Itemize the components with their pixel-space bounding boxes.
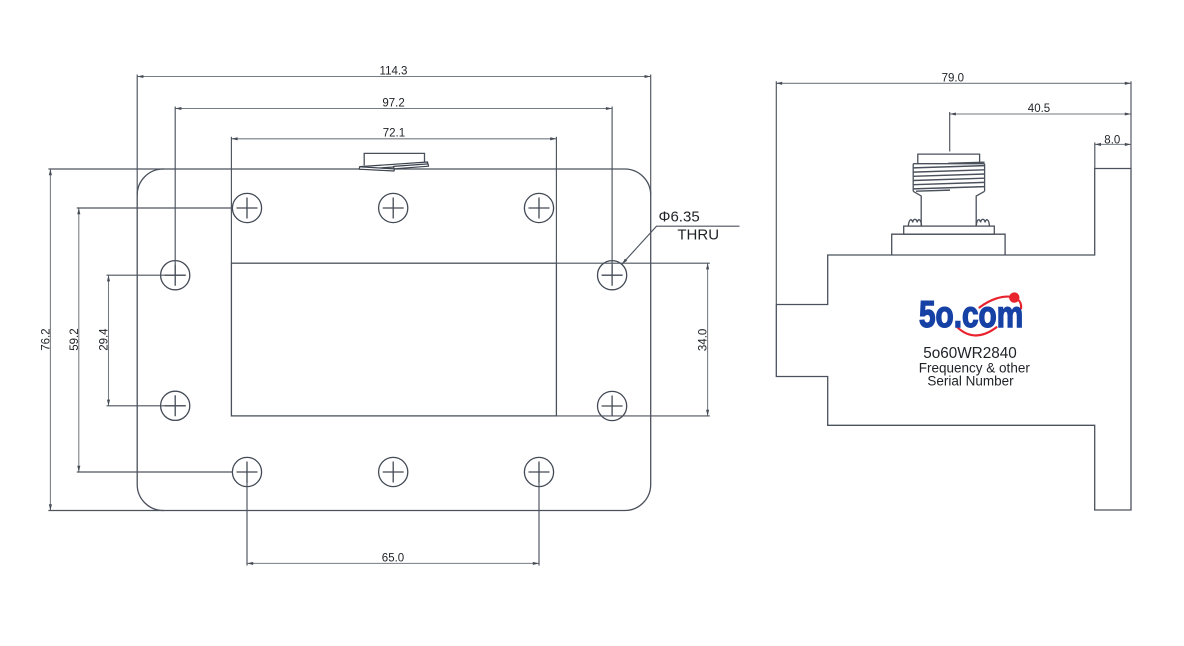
dim72.1 ext right — [555, 137, 557, 263]
svg-text:76.2: 76.2 — [41, 328, 53, 350]
svg-text:THRU: THRU — [677, 227, 719, 244]
arrow 65.0 R — [533, 562, 539, 565]
dim29.4 ext top — [107, 274, 186, 276]
dim72.1 line — [231, 138, 556, 140]
cover clip strip C — [359, 167, 394, 171]
connector cap — [918, 154, 980, 164]
arrow 65.0 L — [247, 562, 253, 565]
arrow 40.5 L — [950, 112, 956, 115]
hole r4c2 — [379, 457, 408, 486]
dim72.1 ext left — [230, 137, 232, 263]
svg-text:114.3: 114.3 — [380, 66, 408, 78]
connector base block — [892, 234, 1005, 255]
holes — [161, 193, 627, 486]
dim59.2 ext top — [77, 207, 233, 209]
dim34.0 line — [707, 263, 709, 416]
cover clip strip A — [360, 162, 428, 169]
dim114.3 ext left — [136, 75, 138, 196]
arrow 114.3 R — [645, 75, 651, 78]
waveguide aperture rectangle — [231, 263, 556, 416]
hole r2c2 — [598, 261, 627, 290]
DIMENSIONS-LEFT — [50, 77, 707, 564]
wave washer right — [976, 219, 989, 226]
washer plate — [904, 226, 995, 234]
arrow leader — [622, 259, 627, 265]
dim65.0 ext right — [538, 481, 540, 566]
hole r1c3 — [524, 193, 553, 222]
cover tab rect — [364, 153, 424, 165]
connector neck — [913, 191, 984, 226]
svg-text:40.5: 40.5 — [1028, 103, 1050, 115]
arrow 79.0 L — [776, 82, 782, 85]
svg-text:Φ6.35: Φ6.35 — [659, 209, 700, 226]
arrow 76.2 T — [49, 169, 52, 175]
hole r4c3 — [524, 457, 553, 486]
DIMENSIONS-RIGHT — [776, 83, 1131, 144]
svg-text:5o.com: 5o.com — [919, 293, 1023, 335]
hole r1c1 — [232, 193, 261, 222]
arrow 29.4 B — [107, 400, 110, 406]
dim8.0 line — [1095, 143, 1131, 145]
dim97.2 ext right — [611, 107, 613, 276]
dim8.0 ext — [1094, 142, 1096, 168]
leader line hole callout — [622, 226, 740, 264]
logo orbit upper arc — [980, 297, 1022, 309]
arrow 72.1 R — [550, 137, 556, 140]
dim40.5 line — [950, 113, 1131, 115]
dim76.2 line — [49, 169, 51, 511]
arrow 76.2 B — [49, 504, 52, 510]
dim79.0 line — [776, 82, 1131, 84]
arrow 8.0 L — [1095, 143, 1101, 146]
svg-text:8.0: 8.0 — [1104, 135, 1120, 147]
dim65.0 line — [247, 562, 539, 564]
arrow 97.2 R — [606, 107, 612, 110]
wave washer left — [908, 219, 921, 226]
LOGO — [919, 292, 1031, 388]
arrows-left — [49, 75, 709, 565]
body outline side view — [776, 169, 1131, 511]
arrow 29.4 T — [107, 275, 110, 281]
hole r2c1 — [161, 261, 190, 290]
svg-text:Serial Number: Serial Number — [927, 373, 1014, 388]
arrow 8.0 R — [1125, 143, 1131, 146]
logo satellite dot — [1009, 292, 1019, 302]
arrow 34.0 B — [706, 410, 709, 416]
dim texts right — [942, 72, 1121, 146]
dim76.2 ext top — [48, 168, 164, 170]
svg-text:59.2: 59.2 — [69, 328, 81, 350]
arrow 97.2 L — [175, 107, 181, 110]
dim97.2 ext left — [174, 107, 176, 276]
dim29.4 ext bottom — [107, 405, 186, 407]
arrow 114.3 L — [137, 75, 143, 78]
svg-text:72.1: 72.1 — [383, 128, 405, 140]
dim65.0 ext left — [246, 481, 248, 566]
svg-text:79.0: 79.0 — [942, 72, 964, 84]
dim114.3 line — [137, 76, 651, 78]
hole r1c2 — [379, 193, 408, 222]
dim right shared ext — [1130, 81, 1132, 168]
svg-text:97.2: 97.2 — [382, 98, 404, 110]
thread lines — [913, 162, 984, 191]
dim34.0 ext bottom — [556, 415, 709, 417]
hole r4c1 — [232, 457, 261, 486]
svg-text:65.0: 65.0 — [382, 552, 404, 564]
arrow 79.0 R — [1125, 82, 1131, 85]
arrow 59.2 B — [77, 466, 80, 472]
dim79.0 ext left — [775, 81, 777, 304]
arrow 40.5 R — [1125, 112, 1131, 115]
cover clip strip B — [394, 164, 429, 169]
dim40.5 ext — [949, 112, 951, 152]
arrow 72.1 L — [231, 137, 237, 140]
dim59.2 line — [78, 208, 80, 472]
dim114.3 ext right — [650, 75, 652, 196]
dim76.2 ext bottom — [48, 510, 164, 512]
dim34.0 ext top — [556, 262, 709, 264]
hole r3c2 — [598, 391, 627, 420]
arrow 34.0 T — [706, 263, 709, 269]
flange outline — [137, 169, 651, 511]
svg-text:34.0: 34.0 — [698, 329, 710, 351]
dim97.2 line — [175, 108, 612, 110]
arrows-right — [776, 82, 1131, 146]
logo orbit lower arc — [958, 327, 997, 335]
RIGHT-VIEW — [776, 154, 1131, 510]
hole r3c1 — [161, 391, 190, 420]
arrow 59.2 T — [77, 208, 80, 214]
dim29.4 line — [108, 275, 110, 406]
dim59.2 ext bottom — [77, 471, 233, 473]
connector thread block — [913, 164, 984, 192]
dim texts left — [41, 66, 720, 565]
svg-text:29.4: 29.4 — [99, 328, 111, 351]
